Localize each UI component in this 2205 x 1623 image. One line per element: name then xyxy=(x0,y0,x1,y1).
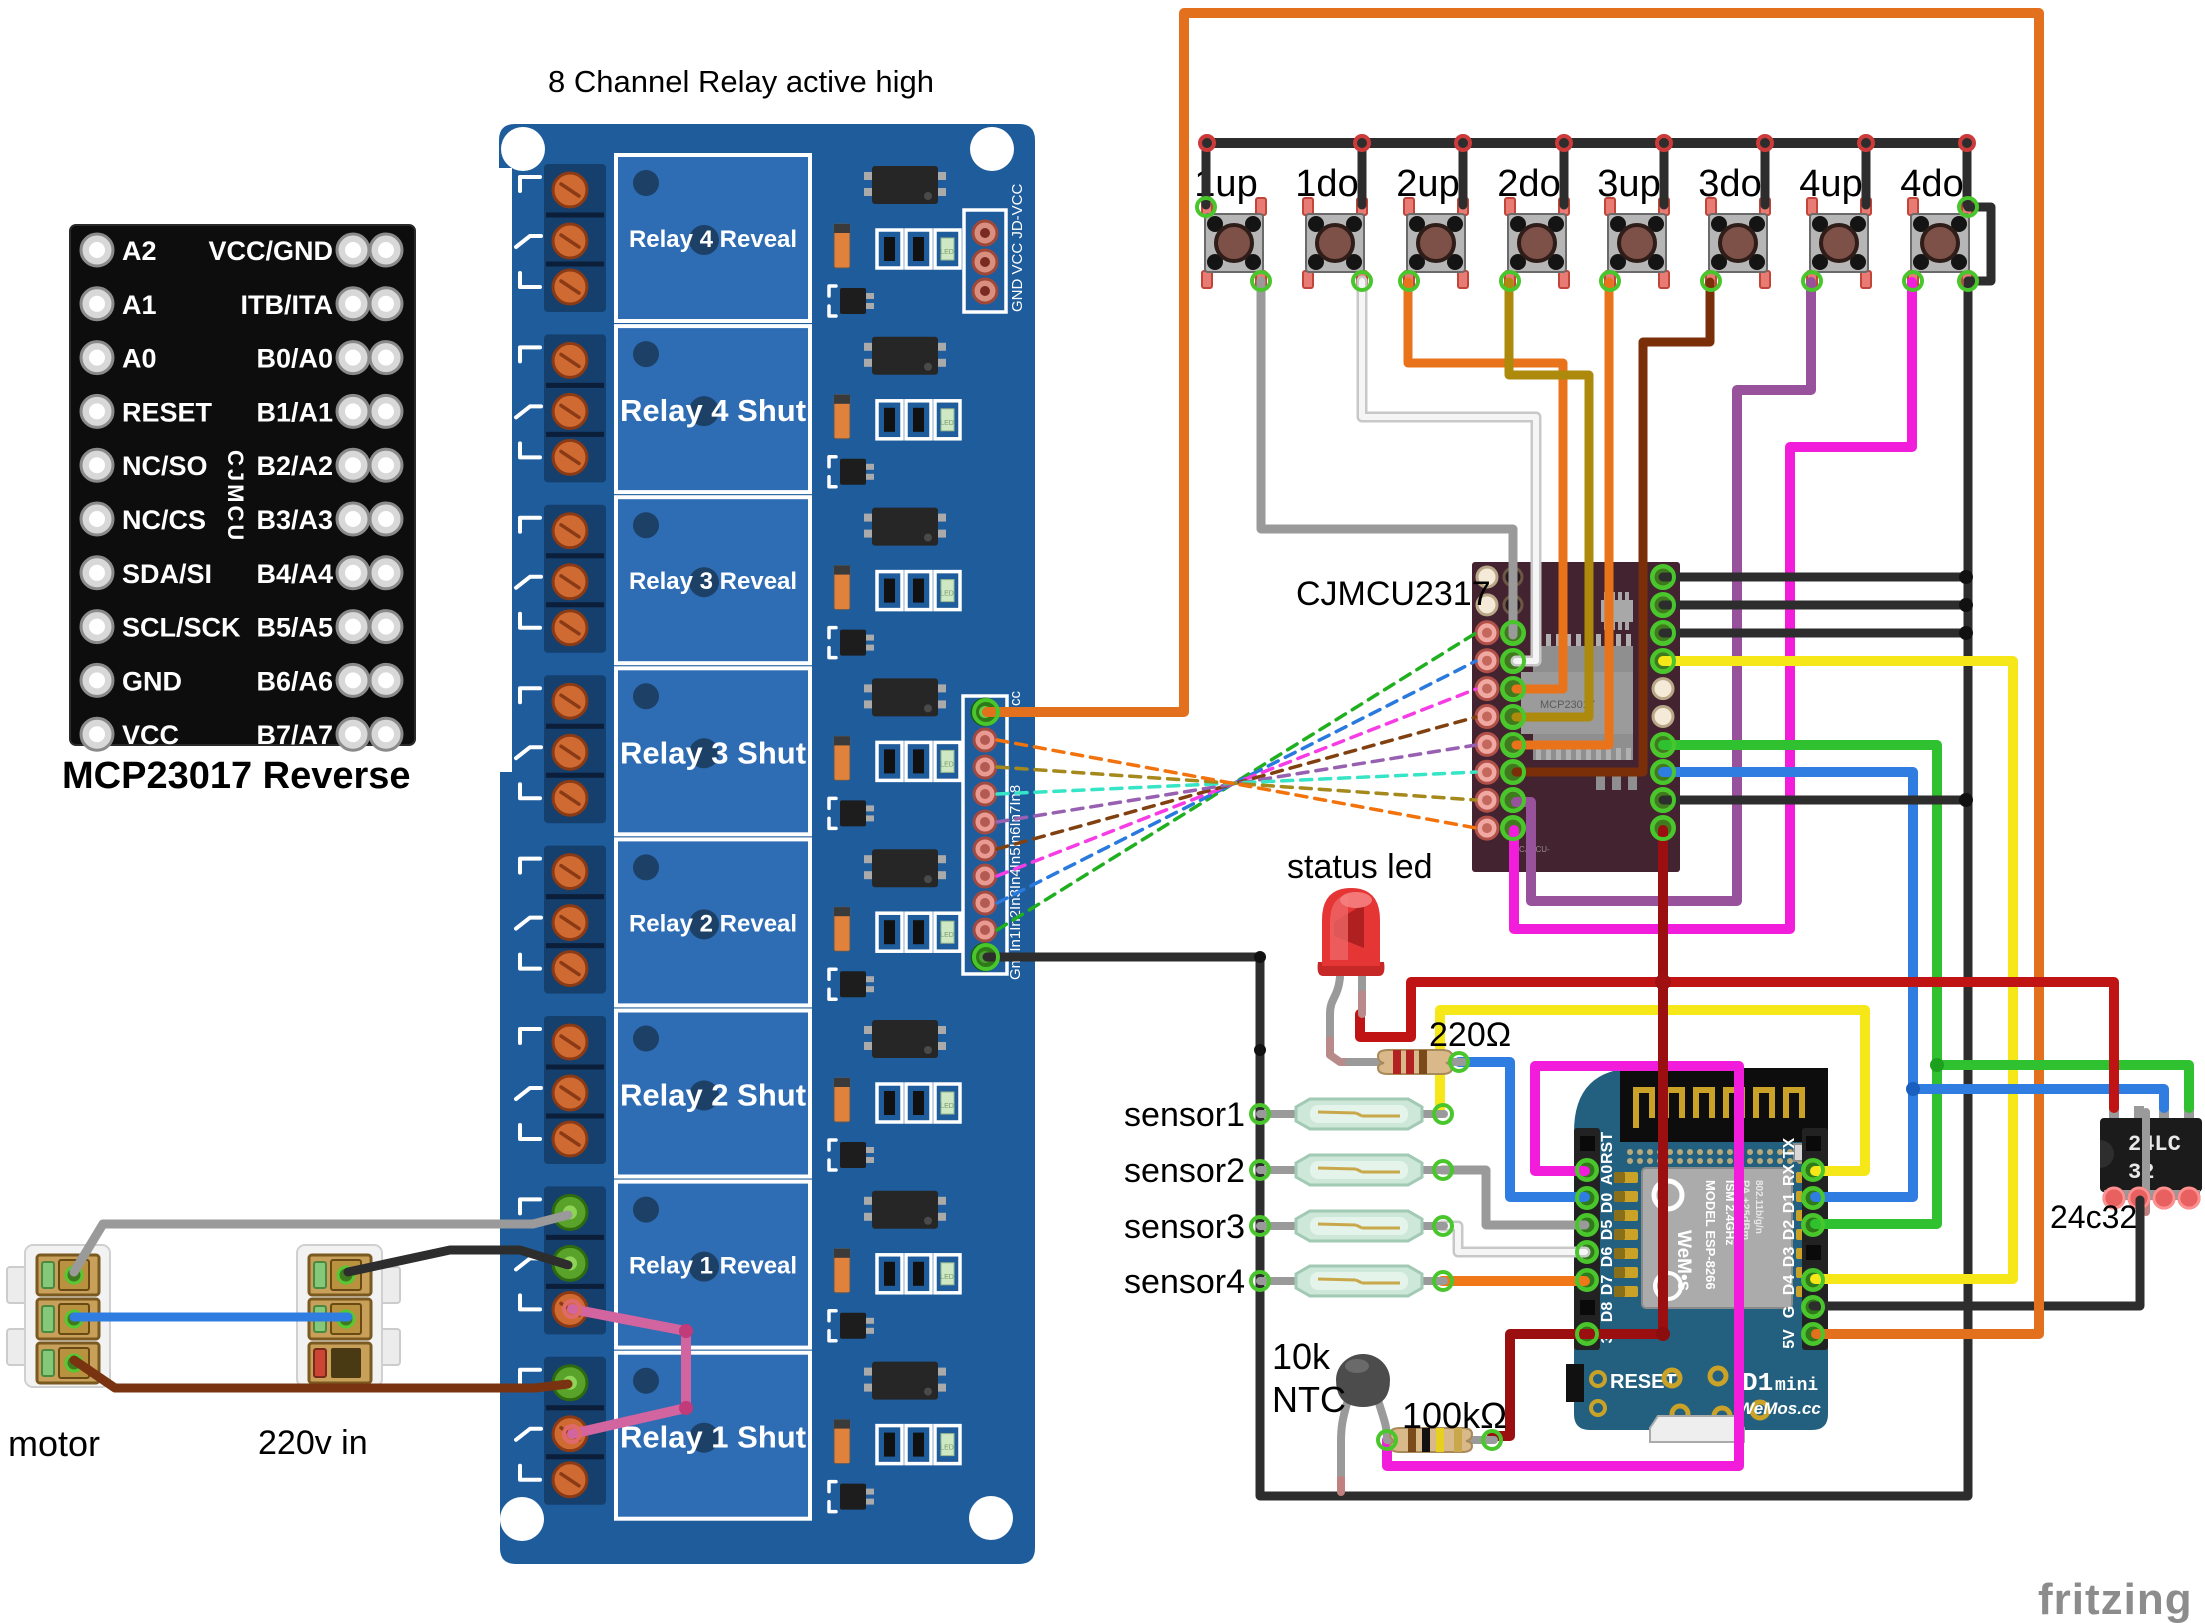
svg-text:WeM•s: WeM•s xyxy=(1673,1230,1694,1291)
svg-text:A0: A0 xyxy=(1599,1165,1616,1186)
svg-text:LED: LED xyxy=(940,591,954,598)
svg-text:LED: LED xyxy=(940,1445,954,1452)
svg-text:Relay 4 Reveal: Relay 4 Reveal xyxy=(629,226,797,253)
svg-text:Relay 1 Shut: Relay 1 Shut xyxy=(620,1420,806,1455)
svg-text:220v in: 220v in xyxy=(258,1424,368,1462)
svg-text:Relay 3 Reveal: Relay 3 Reveal xyxy=(629,568,797,595)
svg-text:cc: cc xyxy=(1007,691,1024,707)
svg-text:Relay 2 Reveal: Relay 2 Reveal xyxy=(629,910,797,937)
svg-text:Relay 1 Reveal: Relay 1 Reveal xyxy=(629,1253,797,1280)
svg-text:24c32: 24c32 xyxy=(2050,1199,2137,1235)
svg-text:B2/A2: B2/A2 xyxy=(256,451,333,481)
svg-text:D1: D1 xyxy=(1781,1193,1798,1214)
svg-text:GND VCC JD-VCC: GND VCC JD-VCC xyxy=(1009,183,1026,312)
svg-text:B6/A6: B6/A6 xyxy=(256,666,333,696)
svg-text:D1: D1 xyxy=(1742,1368,1773,1398)
svg-text:LED: LED xyxy=(940,761,954,768)
svg-text:D7: D7 xyxy=(1599,1275,1616,1296)
svg-text:4do: 4do xyxy=(1900,163,1963,205)
svg-text:3do: 3do xyxy=(1698,163,1761,205)
svg-text:D8: D8 xyxy=(1599,1302,1616,1323)
svg-text:sensor2: sensor2 xyxy=(1124,1152,1245,1190)
svg-text:D0: D0 xyxy=(1599,1193,1616,1214)
svg-text:GND: GND xyxy=(122,666,182,696)
svg-text:2do: 2do xyxy=(1497,163,1560,205)
svg-text:A2: A2 xyxy=(122,236,157,266)
svg-text:GndIn1In2In3In4In5In6In7In8: GndIn1In2In3In4In5In6In7In8 xyxy=(1007,785,1024,980)
svg-text:motor: motor xyxy=(8,1423,100,1464)
svg-text:4up: 4up xyxy=(1799,163,1862,205)
svg-text:D2: D2 xyxy=(1781,1220,1798,1241)
svg-text:B1/A1: B1/A1 xyxy=(256,397,333,427)
svg-text:B0/A0: B0/A0 xyxy=(256,344,333,374)
svg-text:D6: D6 xyxy=(1599,1247,1616,1268)
svg-text:RX: RX xyxy=(1781,1164,1798,1187)
svg-text:LED: LED xyxy=(940,420,954,427)
svg-text:32: 32 xyxy=(2128,1160,2154,1185)
svg-text:LED: LED xyxy=(940,932,954,939)
svg-text:D3: D3 xyxy=(1781,1247,1798,1268)
svg-text:sensor1: sensor1 xyxy=(1124,1096,1245,1134)
svg-text:802.11b/g/n: 802.11b/g/n xyxy=(1753,1180,1764,1234)
svg-text:RESET: RESET xyxy=(122,397,213,427)
svg-text:G: G xyxy=(1781,1306,1798,1318)
svg-text:A1: A1 xyxy=(122,290,157,320)
svg-text:10k: 10k xyxy=(1272,1336,1331,1377)
svg-text:WeMos.cc: WeMos.cc xyxy=(1738,1399,1821,1418)
svg-text:MODEL ESP-8266: MODEL ESP-8266 xyxy=(1703,1180,1718,1290)
svg-text:24LC: 24LC xyxy=(2128,1132,2181,1157)
svg-text:B7/A7: B7/A7 xyxy=(256,720,333,750)
svg-text:A0: A0 xyxy=(122,344,157,374)
svg-text:1do: 1do xyxy=(1295,163,1358,205)
svg-text:sensor4: sensor4 xyxy=(1124,1263,1245,1301)
svg-text:3up: 3up xyxy=(1597,163,1660,205)
svg-text:NC/CS: NC/CS xyxy=(122,505,206,535)
svg-text:Relay 4 Shut: Relay 4 Shut xyxy=(620,393,806,428)
svg-text:B3/A3: B3/A3 xyxy=(256,505,333,535)
svg-text:220Ω: 220Ω xyxy=(1429,1016,1511,1054)
svg-text:SCL/SCK: SCL/SCK xyxy=(122,613,241,643)
svg-text:100kΩ: 100kΩ xyxy=(1402,1395,1507,1436)
svg-text:NC/SO: NC/SO xyxy=(122,451,208,481)
svg-text:MCP23017 Reverse: MCP23017 Reverse xyxy=(62,755,411,797)
svg-text:CJMCU: CJMCU xyxy=(223,450,248,543)
svg-text:status led: status led xyxy=(1287,848,1433,886)
svg-text:B5/A5: B5/A5 xyxy=(256,613,333,643)
svg-text:5V: 5V xyxy=(1781,1329,1798,1349)
svg-text:LED: LED xyxy=(940,1274,954,1281)
svg-text:mini: mini xyxy=(1775,1376,1818,1396)
svg-text:VCC: VCC xyxy=(122,720,179,750)
svg-text:SDA/SI: SDA/SI xyxy=(122,559,212,589)
svg-text:NTC: NTC xyxy=(1272,1379,1346,1420)
svg-text:LED: LED xyxy=(940,249,954,256)
svg-text:8 Channel Relay active high: 8 Channel Relay active high xyxy=(548,64,934,99)
svg-text:VCC/GND: VCC/GND xyxy=(208,236,333,266)
svg-text:B4/A4: B4/A4 xyxy=(256,559,333,589)
svg-text:fritzing: fritzing xyxy=(2038,1575,2193,1623)
svg-text:2up: 2up xyxy=(1396,163,1459,205)
svg-text:TX: TX xyxy=(1781,1137,1798,1158)
svg-text:RST: RST xyxy=(1599,1132,1616,1164)
svg-text:Relay 3 Shut: Relay 3 Shut xyxy=(620,735,806,770)
svg-text:Relay 2 Shut: Relay 2 Shut xyxy=(620,1078,806,1113)
svg-text:D4: D4 xyxy=(1781,1275,1798,1296)
svg-text:ITB/ITA: ITB/ITA xyxy=(241,290,333,320)
svg-text:sensor3: sensor3 xyxy=(1124,1208,1245,1246)
svg-text:D5: D5 xyxy=(1599,1220,1616,1241)
svg-text:CJMCU2317: CJMCU2317 xyxy=(1296,575,1491,613)
svg-text:LED: LED xyxy=(940,1103,954,1110)
